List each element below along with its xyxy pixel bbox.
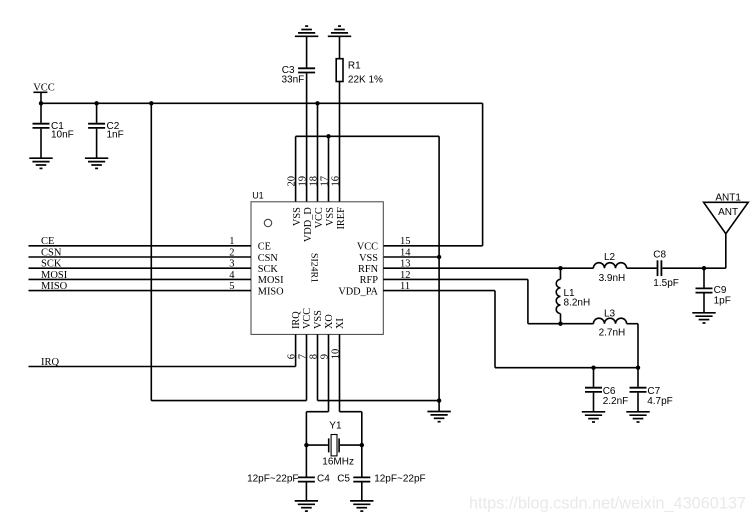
svg-text:MISO: MISO	[41, 281, 68, 292]
label SI24R1	[309, 253, 320, 283]
svg-text:CSN: CSN	[41, 247, 62, 258]
svg-text:C5: C5	[337, 474, 350, 485]
svg-text:VCC: VCC	[314, 207, 325, 228]
wire VDD_PA	[383, 291, 638, 368]
svg-text:SCK: SCK	[258, 264, 279, 275]
inductor L2	[561, 252, 627, 284]
wire pin18 VCC	[317, 103, 319, 202]
ground above R1	[328, 26, 351, 36]
antenna ANT1	[704, 192, 749, 233]
svg-text:VSS: VSS	[292, 207, 303, 226]
net label CSN	[41, 247, 62, 258]
ground C7	[626, 412, 649, 422]
inductor L1	[556, 268, 590, 324]
svg-text:IREF: IREF	[336, 207, 347, 230]
ground C5	[350, 501, 373, 511]
svg-text:MISO: MISO	[258, 286, 284, 297]
wire VCC to pin15	[383, 103, 482, 246]
svg-text:VCC: VCC	[302, 308, 313, 329]
net label SCK	[41, 259, 62, 270]
wire pin17 VSS	[328, 136, 330, 202]
capacitor C5	[337, 445, 425, 501]
svg-text:19: 19	[298, 176, 309, 187]
junction C2	[94, 101, 98, 105]
wire VCC rail	[41, 102, 483, 104]
svg-text:CSN: CSN	[258, 253, 279, 264]
svg-text:16: 16	[331, 176, 342, 187]
svg-text:ANT: ANT	[718, 207, 738, 218]
crystal Y1	[306, 421, 361, 468]
svg-text:VSS: VSS	[313, 310, 324, 329]
svg-text:L2: L2	[604, 252, 616, 263]
svg-text:VCC: VCC	[357, 242, 378, 253]
wire pin20 VSS	[295, 136, 297, 202]
ground C1	[29, 158, 52, 168]
svg-text:VDD_PA: VDD_PA	[338, 286, 378, 297]
U1 top pin numbers 20-16	[287, 176, 342, 187]
watermark	[469, 495, 746, 513]
svg-text:3.9nH: 3.9nH	[599, 273, 626, 284]
U1 top pin names	[292, 207, 347, 242]
svg-text:SI24R1: SI24R1	[309, 253, 320, 283]
svg-text:VDD_D: VDD_D	[303, 207, 314, 242]
svg-text:CE: CE	[41, 236, 54, 247]
capacitor C2	[88, 103, 124, 158]
wire net MISO	[29, 290, 252, 292]
junction VCC/C1	[39, 101, 43, 105]
ground VSS rail	[427, 401, 450, 422]
svg-text:20: 20	[287, 176, 298, 187]
svg-text:17: 17	[320, 176, 331, 187]
wire net MOSI	[29, 278, 252, 280]
svg-text:C8: C8	[653, 249, 666, 260]
capacitor C8	[627, 249, 726, 289]
wire RFN	[383, 267, 560, 269]
svg-text:22K 1%: 22K 1%	[348, 75, 383, 86]
svg-text:R1: R1	[348, 61, 361, 72]
svg-text:Y1: Y1	[329, 421, 342, 432]
svg-text:IRQ: IRQ	[41, 357, 60, 368]
wire to antenna	[725, 234, 727, 269]
svg-text:18: 18	[309, 176, 320, 187]
ground C9	[692, 313, 715, 323]
svg-text:RFP: RFP	[360, 275, 379, 286]
svg-text:https://blog.csdn.net/weixin_4: https://blog.csdn.net/weixin_43060137	[469, 495, 746, 513]
wire XO	[306, 334, 328, 445]
junction C7	[636, 366, 640, 370]
wire pin8 VSS	[318, 334, 440, 400]
svg-text:8.2nH: 8.2nH	[564, 298, 591, 309]
U1 right pin names	[338, 242, 378, 298]
junction pin14 VSS	[437, 255, 441, 259]
wire VSS vertical	[438, 136, 440, 400]
svg-text:ANT1: ANT1	[715, 192, 741, 203]
svg-text:12pF~22pF: 12pF~22pF	[374, 474, 425, 485]
junction C9 node	[702, 266, 706, 270]
wire net CE	[29, 245, 252, 247]
ground C2	[85, 158, 108, 168]
svg-text:RFN: RFN	[358, 264, 379, 275]
ground above C3	[295, 26, 318, 36]
wire RFP	[383, 279, 560, 323]
junction RFN/L1	[558, 266, 562, 270]
svg-text:10nF: 10nF	[51, 130, 74, 141]
wire net CSN	[29, 256, 252, 258]
net label MISO	[41, 281, 68, 292]
U1 bottom pin numbers 6-10	[287, 349, 342, 360]
svg-text:12pF~22pF: 12pF~22pF	[247, 474, 298, 485]
capacitor C6	[585, 368, 628, 412]
svg-text:XO: XO	[324, 314, 335, 329]
junction pin17 VSS	[326, 134, 330, 138]
svg-text:U1: U1	[252, 191, 264, 201]
svg-text:VSS: VSS	[359, 253, 378, 264]
junction RFP/L1	[558, 322, 562, 326]
svg-text:XI: XI	[335, 318, 346, 329]
junction XI/C5	[360, 443, 364, 447]
svg-text:MOSI: MOSI	[41, 270, 68, 281]
svg-text:L3: L3	[604, 308, 616, 319]
svg-text:33nF: 33nF	[282, 75, 305, 86]
svg-text:CE: CE	[258, 242, 271, 253]
capacitor C3	[282, 36, 316, 202]
svg-text:16MHz: 16MHz	[322, 457, 354, 468]
svg-text:MOSI: MOSI	[258, 275, 284, 286]
net label IRQ	[41, 357, 60, 368]
junction pin18 VCC	[315, 101, 319, 105]
net label CE	[41, 236, 54, 247]
wire XI	[340, 334, 362, 445]
U1 left pin names	[258, 242, 284, 298]
inductor L3	[561, 308, 639, 367]
U1 bottom pin names	[291, 308, 346, 329]
wire VSS rail	[296, 135, 440, 137]
ground C6	[582, 412, 605, 422]
svg-text:C9: C9	[714, 285, 727, 296]
svg-text:1nF: 1nF	[107, 130, 124, 141]
svg-text:IRQ: IRQ	[291, 311, 302, 329]
svg-text:14: 14	[400, 247, 411, 258]
svg-text:2.2nF: 2.2nF	[603, 396, 629, 407]
IC U1 SI24R1 body	[251, 191, 383, 335]
svg-text:1.5pF: 1.5pF	[653, 278, 679, 289]
svg-text:SCK: SCK	[41, 259, 62, 270]
capacitor C1	[33, 103, 74, 158]
resistor R1	[336, 36, 383, 202]
svg-text:VSS: VSS	[325, 207, 336, 226]
svg-text:15: 15	[400, 236, 411, 247]
wire pin14 VSS	[383, 256, 439, 258]
svg-text:C4: C4	[317, 474, 330, 485]
ground C4	[295, 501, 318, 511]
wire net IRQ	[29, 334, 296, 366]
junction VSS ground	[437, 398, 441, 402]
U1 right pin numbers 15-11	[400, 236, 411, 292]
svg-text:1pF: 1pF	[714, 295, 731, 306]
wire VCC drop	[151, 103, 306, 400]
svg-text:VCC: VCC	[33, 83, 55, 94]
svg-text:2.7nH: 2.7nH	[599, 328, 626, 339]
U1 left pin numbers 1-5	[229, 236, 235, 292]
capacitor C4	[247, 445, 330, 501]
wire net SCK	[29, 267, 252, 269]
capacitor C9	[696, 268, 731, 313]
junction C6	[591, 366, 595, 370]
junction XO/C4	[304, 443, 308, 447]
svg-text:4.7pF: 4.7pF	[647, 396, 673, 407]
power port VCC	[33, 83, 55, 104]
capacitor C7	[630, 368, 673, 412]
junction VCC drop	[149, 101, 153, 105]
net label MOSI	[41, 270, 68, 281]
